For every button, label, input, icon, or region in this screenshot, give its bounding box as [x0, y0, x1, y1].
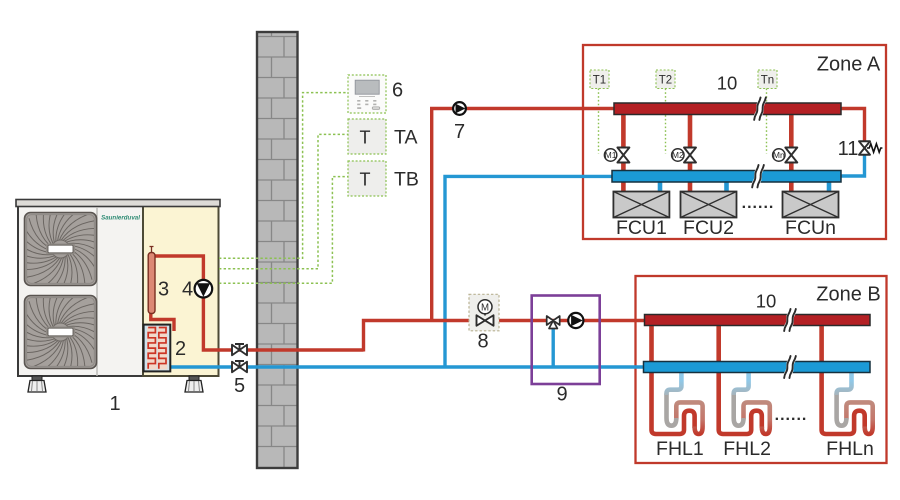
red supply riser to Zone A — [432, 109, 614, 322]
svg-text:4: 4 — [182, 279, 193, 301]
thermostat TB — [348, 161, 386, 196]
svg-text:M1: M1 — [605, 150, 617, 160]
svg-text:Tn: Tn — [761, 75, 774, 87]
svg-text:Zone A: Zone A — [817, 54, 881, 76]
svg-text:......: ...... — [742, 195, 775, 212]
motorised diverter valve 8 — [469, 294, 499, 331]
room sensor Tn — [758, 70, 777, 89]
room sensor T2 — [656, 70, 675, 89]
motorised zone valve M2 — [684, 148, 696, 163]
pump in mixing station 9 — [568, 313, 583, 328]
blue link valve 11 to Zone A return manifold — [841, 152, 865, 176]
svg-text:FHL1: FHL1 — [656, 438, 704, 460]
svg-text:FCUn: FCUn — [785, 217, 836, 239]
svg-text:T: T — [360, 170, 371, 190]
motorised zone valve M1 — [617, 148, 629, 163]
floor heating loop FHLn — [822, 322, 873, 434]
brick wall — [257, 32, 298, 468]
circulation pump 7 — [453, 102, 466, 115]
control cable: unit to thermostat TA — [219, 134, 348, 268]
svg-text:1: 1 — [109, 393, 120, 415]
FCU return stub — [724, 181, 729, 192]
blue return main pipe: heat exchanger to Zone B manifold — [160, 365, 645, 368]
manifold 10 Zone B supply bar — [645, 315, 871, 326]
svg-text:10: 10 — [756, 291, 777, 312]
red supply main: wall to mixing unit and Zone B manifold — [364, 321, 647, 352]
unit foot left — [32, 376, 42, 381]
blue riser inside mixing unit 9 — [552, 322, 555, 367]
unit foot right — [189, 376, 199, 381]
fan grille top — [25, 213, 97, 286]
svg-text:FCU1: FCU1 — [616, 217, 667, 239]
heat exchanger 2 — [144, 325, 171, 372]
svg-text:T2: T2 — [659, 75, 672, 87]
svg-text:Saunierduval: Saunierduval — [101, 215, 140, 222]
Zone A supply drop to FCU2 — [688, 112, 693, 148]
svg-text:11: 11 — [838, 138, 859, 160]
red pipe: heater top to pump 4 and out of unit — [152, 256, 364, 350]
thermostat TA — [348, 119, 386, 154]
svg-text:T: T — [360, 128, 371, 148]
svg-text:FHL2: FHL2 — [723, 438, 771, 460]
svg-text:TA: TA — [394, 127, 417, 149]
svg-text:Mn: Mn — [773, 150, 785, 160]
manifold 10 Zone A supply bar — [614, 103, 841, 115]
system controller 6 — [348, 75, 386, 113]
manifold Zone B return bar — [644, 362, 871, 373]
svg-text:FHLn: FHLn — [826, 438, 874, 460]
svg-text:M: M — [481, 302, 489, 313]
red link Zone A manifold to bypass valve 11 — [841, 109, 865, 144]
red pipe: heater bottom to heat exchanger — [151, 312, 174, 331]
fan grille bottom — [25, 296, 97, 369]
Zone A enclosure — [583, 45, 886, 239]
shut-off valve 5 (return) — [232, 362, 247, 373]
svg-text:3: 3 — [158, 279, 169, 301]
svg-text:Zone B: Zone B — [816, 284, 880, 306]
manifold Zone A return bar — [612, 171, 841, 183]
control cable: unit to thermostat TB — [219, 177, 348, 284]
control cable: unit to controller 6 — [219, 93, 348, 259]
svg-text:......: ...... — [775, 407, 808, 424]
svg-text:6: 6 — [392, 80, 403, 102]
shut-off valve 5 (flow) — [232, 345, 247, 356]
fan coil unit FCU1 — [613, 192, 669, 218]
svg-text:FCU2: FCU2 — [683, 217, 734, 239]
motorised zone valve Mn — [785, 148, 797, 163]
Zone A supply drop to FCU3 — [789, 112, 794, 148]
blue return riser from Zone A — [445, 176, 612, 367]
FCU return stub — [827, 181, 832, 192]
svg-text:M2: M2 — [672, 150, 684, 160]
fan coil unit FCU2 — [681, 192, 737, 218]
pressure bypass valve 11 — [859, 141, 870, 155]
svg-text:T1: T1 — [593, 75, 606, 87]
svg-text:9: 9 — [556, 384, 567, 406]
room sensor T1 — [590, 70, 609, 89]
Zone B enclosure — [636, 276, 887, 463]
mixing station 9 — [532, 296, 600, 385]
sensor cable T1 to valve M1 — [598, 89, 600, 154]
3-way mixing valve in 9 — [547, 316, 560, 325]
FCU return stub — [658, 181, 663, 192]
floor heating loop FHL2 — [719, 322, 770, 434]
heat pump unit 1: outdoor monobloc body — [18, 206, 143, 377]
svg-text:10: 10 — [717, 73, 738, 94]
floor heating loop FHL1 — [652, 322, 703, 434]
sensor cable Tn to valve Mn — [766, 89, 768, 154]
sensor cable T2 to valve M2 — [665, 89, 667, 154]
backup heater 3 — [148, 253, 155, 314]
svg-text:2: 2 — [175, 338, 186, 360]
Zone A supply drop to FCU1 — [621, 112, 626, 148]
svg-text:TB: TB — [394, 169, 419, 191]
fan coil unit FCUn — [783, 192, 839, 218]
svg-text:7: 7 — [454, 121, 465, 143]
svg-text:8: 8 — [477, 331, 488, 353]
internal pump 4 — [195, 280, 213, 298]
svg-text:5: 5 — [234, 375, 245, 397]
